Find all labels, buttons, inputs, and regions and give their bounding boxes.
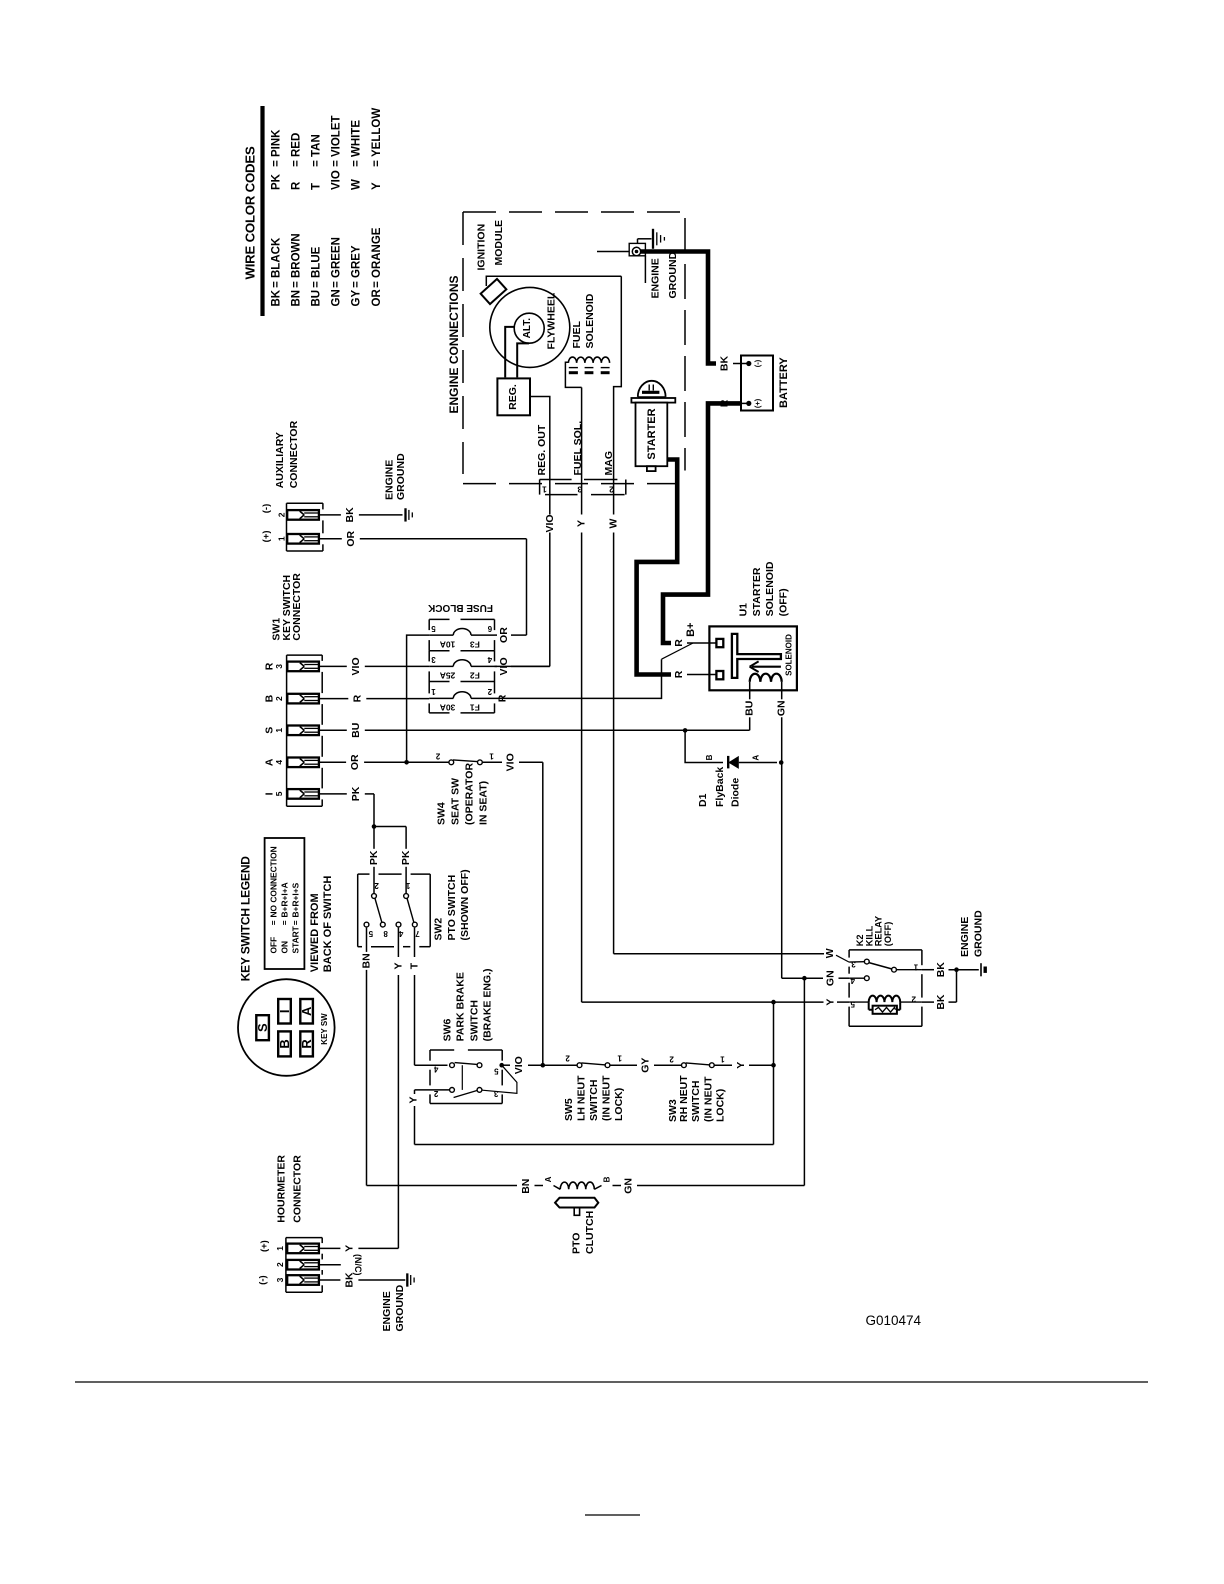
key switch face diagram [238, 979, 335, 1076]
svg-text:SOLENOID: SOLENOID [784, 634, 793, 676]
svg-text:BU: BU [311, 290, 323, 307]
svg-text:IGNITION: IGNITION [476, 224, 488, 271]
svg-text:BN: BN [361, 953, 373, 968]
svg-text:5: 5 [431, 624, 436, 633]
wire ALT to REG right [517, 343, 529, 377]
svg-text:S: S [255, 1023, 270, 1032]
svg-text:OFF: OFF [269, 937, 279, 954]
seat switch SW4 [435, 752, 494, 765]
label ENGINE GROUND (hourmeter) [381, 1284, 406, 1331]
svg-text:NO CONNECTION: NO CONNECTION [269, 846, 279, 917]
PTO clutch body [555, 1198, 598, 1216]
starter cable thick [637, 460, 678, 675]
wire BU key pin1 to solenoid coil [319, 723, 750, 738]
svg-text:ENGINE: ENGINE [959, 917, 971, 957]
svg-text:REG. OUT: REG. OUT [536, 424, 548, 475]
svg-text:BU: BU [744, 701, 756, 716]
svg-text:(BRAKE ENG.): (BRAKE ENG.) [482, 968, 494, 1041]
wire ALT to REG left [505, 327, 514, 378]
SW6 blade pole1 [455, 1063, 477, 1065]
svg-text:3: 3 [493, 1089, 498, 1098]
svg-text:=: = [271, 160, 283, 167]
svg-text:YELLOW: YELLOW [371, 108, 383, 157]
svg-text:START: START [290, 925, 300, 953]
engine ground bolt (top right) [597, 239, 652, 283]
wire OR fuse pin6 to auxiliary connector [495, 539, 527, 643]
svg-text:(+): (+) [753, 398, 762, 408]
svg-text:ON: ON [280, 941, 290, 954]
svg-text:GN: GN [776, 700, 788, 716]
wire color codes legend [243, 106, 384, 316]
wire Y to hourmeter pin1 [319, 1245, 399, 1252]
svg-text:5: 5 [850, 999, 855, 1008]
svg-text:PTO: PTO [571, 1233, 583, 1254]
svg-text:FUSE BLOCK: FUSE BLOCK [427, 602, 493, 613]
svg-text:2: 2 [911, 995, 916, 1004]
flywheel [490, 287, 570, 367]
svg-text:T: T [311, 183, 323, 190]
label SW1 KEY SWITCH CONNECTOR [271, 573, 303, 641]
svg-text:SOLENOID: SOLENOID [764, 561, 776, 616]
footer rule [75, 1381, 1148, 1383]
svg-text:R: R [496, 694, 508, 702]
svg-text:4: 4 [398, 929, 403, 938]
svg-text:R: R [299, 1039, 314, 1049]
wire FUEL SOL pin 3 [581, 387, 583, 475]
svg-text:GN: GN [331, 289, 343, 306]
engine connections dashed enclosure [447, 212, 685, 484]
svg-text:(N/C): (N/C) [353, 1254, 363, 1276]
SW6 pin5 contact [477, 1063, 499, 1076]
svg-text:WHITE: WHITE [351, 120, 363, 157]
svg-text:(+): (+) [261, 530, 272, 542]
fuse F2 25A [429, 655, 494, 681]
svg-text:1: 1 [274, 728, 284, 733]
svg-text:BN: BN [520, 1179, 532, 1194]
hourmeter pin2 [275, 1262, 285, 1267]
label ENGINE GROUND (auxiliary) [383, 453, 407, 500]
svg-text:FlyBack: FlyBack [714, 767, 726, 807]
svg-text:BK: BK [271, 289, 283, 306]
ground symbol (kill relay) [981, 963, 985, 976]
svg-text:1: 1 [720, 1055, 725, 1064]
wire Y from pin 3 down to kill relay [576, 475, 588, 1002]
SW2 pin4 contact [396, 922, 403, 938]
SW2 pin7 contact [412, 922, 419, 938]
svg-text:MAG: MAG [603, 451, 615, 476]
RH neutral switch SW3 [669, 1055, 725, 1068]
SW1 pin 3 terminal R [263, 662, 284, 670]
svg-text:Y: Y [825, 999, 837, 1006]
svg-text:BACK OF SWITCH: BACK OF SWITCH [322, 876, 334, 973]
svg-text:B+: B+ [685, 623, 697, 637]
wire VIO from pin 1 to fuse F2 [495, 475, 556, 666]
svg-text:2: 2 [435, 752, 440, 761]
svg-text:BLUE: BLUE [311, 246, 323, 278]
svg-text:30A: 30A [440, 703, 456, 713]
svg-text:VIO: VIO [513, 1056, 525, 1074]
key switch legend [238, 838, 334, 981]
wire N/C hourmeter pin2 [319, 1254, 363, 1276]
svg-text:F1: F1 [470, 703, 480, 713]
svg-text:GY: GY [640, 1058, 652, 1073]
svg-text:=: = [291, 160, 303, 167]
svg-text:Y: Y [735, 1062, 747, 1069]
SW2 pin8 contact [380, 922, 387, 938]
SW6 pin3 to pin5 jog [482, 1065, 517, 1093]
fuse F1 30A [429, 687, 494, 713]
svg-text:=: = [351, 160, 363, 167]
solenoid contact blade [662, 643, 693, 659]
wire Y SW3 to junction [715, 1062, 776, 1069]
diode D1 [705, 754, 784, 769]
svg-text:VIO: VIO [544, 514, 556, 532]
svg-text:PARK BRAKE: PARK BRAKE [454, 972, 466, 1041]
ground symbol (auxiliary) [406, 508, 413, 521]
svg-text:1: 1 [405, 881, 410, 890]
svg-text:10A: 10A [440, 639, 456, 649]
SW6 pin2 wire in [415, 1089, 450, 1091]
svg-text:7: 7 [415, 929, 420, 938]
svg-text:Diode: Diode [730, 778, 742, 807]
fuel solenoid [565, 293, 609, 387]
wire BK K2 pin1 to engine ground [922, 962, 979, 978]
label D1 FlyBack Diode [697, 767, 741, 807]
engine connector bracket [540, 480, 626, 495]
svg-text:GROUND: GROUND [395, 453, 407, 500]
svg-text:=: = [371, 160, 383, 167]
svg-text:SWITCH: SWITCH [468, 1000, 480, 1041]
kill relay K2 box [849, 950, 922, 1026]
svg-text:SOLENOID: SOLENOID [584, 293, 596, 348]
svg-text:=: = [331, 281, 343, 288]
svg-text:GREY: GREY [351, 245, 363, 278]
K2 pin3 contact [849, 959, 869, 968]
wire PK to SW2 pin1 [400, 827, 412, 894]
svg-text:VIO: VIO [505, 753, 517, 771]
svg-text:VIEWED FROM: VIEWED FROM [309, 893, 321, 972]
svg-text:(+): (+) [259, 1240, 270, 1252]
wire R to battery positive [719, 399, 749, 407]
auxiliary connector [287, 503, 323, 551]
K2 pin1 contact [892, 962, 922, 972]
K2 coil [849, 995, 922, 1014]
svg-text:VIO: VIO [331, 170, 343, 190]
svg-text:B: B [602, 1176, 611, 1182]
svg-text:BU: BU [350, 723, 362, 738]
label SW2 PTO SWITCH (SHOWN OFF) [432, 869, 471, 940]
svg-text:PK: PK [368, 850, 380, 865]
svg-text:VIOLET: VIOLET [331, 115, 343, 157]
svg-text:SW2: SW2 [432, 918, 444, 941]
SW1 pin 4 terminal A [263, 758, 284, 766]
wire GY SW5 to SW3 [610, 1058, 681, 1073]
svg-text:1: 1 [277, 536, 287, 541]
svg-text:25A: 25A [440, 671, 456, 681]
SW6 pin4 contact [433, 1063, 454, 1074]
wire Y SW6 pin2 branch [408, 1090, 774, 1145]
svg-text:2: 2 [275, 1262, 285, 1267]
wire BN SW2 pin5 down [361, 928, 373, 1186]
starter solenoid U1 box [709, 626, 797, 690]
svg-text:ENGINE: ENGINE [381, 1291, 393, 1331]
svg-text:A: A [299, 1006, 314, 1016]
svg-text:ENGINE: ENGINE [650, 258, 662, 298]
svg-text:1: 1 [617, 1054, 622, 1063]
svg-text:2: 2 [487, 687, 492, 696]
svg-text:R: R [291, 181, 303, 190]
svg-text:R: R [673, 639, 685, 647]
svg-text:=: = [280, 920, 290, 925]
svg-text:RELAY: RELAY [874, 916, 884, 946]
svg-text:A: A [752, 755, 761, 761]
svg-text:G010474: G010474 [866, 1313, 922, 1328]
svg-text:LH NEUT: LH NEUT [576, 1075, 588, 1121]
wire PK riser to SW2 [372, 794, 406, 829]
svg-text:RED: RED [291, 133, 303, 157]
wire GN to K2 pin4 [782, 970, 849, 986]
PTO clutch coil [554, 1182, 602, 1189]
svg-text:BK: BK [935, 962, 947, 978]
label AUXILIARY CONNECTOR [274, 420, 300, 488]
svg-text:ENGINE CONNECTIONS: ENGINE CONNECTIONS [447, 275, 461, 413]
svg-text:Y: Y [408, 1096, 420, 1103]
svg-text:PK: PK [271, 173, 283, 190]
wire OR riser key pin4 to fuse pin5 [407, 635, 430, 762]
svg-text:D1: D1 [697, 793, 709, 807]
svg-text:SWITCH: SWITCH [588, 1080, 600, 1121]
svg-text:1: 1 [431, 687, 436, 696]
svg-text:1: 1 [542, 484, 547, 494]
wire BK aux to engine ground [319, 507, 403, 523]
svg-text:A: A [544, 1176, 553, 1182]
svg-text:U1: U1 [738, 603, 750, 617]
svg-text:GN: GN [623, 1178, 635, 1194]
svg-text:=: = [271, 281, 283, 288]
battery cable negative BK [640, 252, 716, 364]
svg-text:SW4: SW4 [436, 802, 448, 825]
svg-text:HOURMETER: HOURMETER [276, 1155, 288, 1223]
svg-text:3: 3 [274, 664, 284, 669]
PTO switch SW2 box [358, 874, 431, 947]
label SW5 LH NEUT SWITCH (IN NEUT LOCK) [563, 1075, 625, 1121]
svg-text:BK: BK [935, 994, 947, 1010]
svg-text:2: 2 [565, 1054, 570, 1063]
svg-text:BK: BK [344, 507, 356, 523]
fuse block [429, 619, 494, 713]
wire PK key pin5 [319, 786, 374, 801]
svg-text:PTO SWITCH: PTO SWITCH [446, 875, 458, 941]
svg-text:MODULE: MODULE [493, 220, 505, 266]
svg-text:BK: BK [719, 356, 731, 372]
svg-text:B: B [277, 1039, 292, 1048]
svg-text:GN: GN [825, 970, 837, 986]
svg-text:ORANGE: ORANGE [371, 227, 383, 278]
starter [631, 381, 675, 471]
svg-text:BN: BN [291, 290, 303, 307]
svg-text:SWITCH: SWITCH [690, 1081, 702, 1122]
svg-text:R: R [351, 694, 363, 702]
wire VIO SW6 to SW5 [499, 1056, 576, 1074]
svg-text:(-): (-) [257, 1275, 268, 1285]
svg-text:(IN NEUT: (IN NEUT [601, 1075, 613, 1121]
label U1 STARTER SOLENOID (OFF) [738, 561, 790, 616]
figure number G010474 [866, 1313, 922, 1328]
svg-text:(OFF): (OFF) [883, 922, 893, 947]
svg-text:FUEL SOL.: FUEL SOL. [572, 421, 584, 476]
ignition module [476, 220, 507, 304]
svg-text:PINK: PINK [271, 129, 283, 157]
svg-text:=: = [351, 281, 363, 288]
svg-text:I: I [277, 1009, 292, 1013]
svg-text:OR: OR [349, 754, 361, 770]
svg-text:CONNECTOR: CONNECTOR [288, 420, 300, 488]
alternator ALT [514, 313, 544, 343]
svg-text:WIRE COLOR CODES: WIRE COLOR CODES [243, 146, 258, 279]
LH neutral switch SW5 [565, 1054, 622, 1068]
label SW3 RH NEUT SWITCH (IN NEUT LOCK) [667, 1075, 726, 1122]
svg-text:=: = [290, 920, 300, 925]
svg-text:LOCK): LOCK) [714, 1089, 726, 1122]
SW6 pin3 contact [477, 1088, 498, 1099]
svg-text:Y: Y [576, 520, 588, 527]
SW1 pin 1 terminal S [263, 727, 284, 734]
wire OR key pin4 to seat switch [319, 754, 449, 770]
svg-text:OR: OR [371, 289, 383, 307]
svg-text:3: 3 [275, 1277, 285, 1282]
svg-text:CONNECTOR: CONNECTOR [291, 573, 303, 641]
K2 pin4 contact [849, 976, 869, 985]
svg-text:(IN NEUT: (IN NEUT [702, 1076, 714, 1122]
svg-text:ALT.: ALT. [522, 318, 533, 339]
wire VIO fuse pin4 riser [495, 657, 550, 675]
svg-text:1: 1 [275, 1246, 285, 1251]
wire GN PTO clutch B to kill relay net [602, 978, 804, 1194]
wire W from pin 2 down to kill relay [608, 475, 620, 954]
svg-text:GY: GY [351, 290, 363, 307]
SW2 pin1 contact [404, 881, 411, 899]
label K2 KILL RELAY (OFF) [855, 916, 893, 946]
svg-text:B: B [705, 754, 714, 760]
battery [741, 356, 790, 411]
svg-text:PK: PK [350, 786, 362, 801]
wire R to solenoid B+ pin [673, 639, 717, 647]
wire R from fuse F1 to solenoid blade [495, 659, 662, 702]
label PTO CLUTCH [571, 1211, 597, 1254]
svg-text:6: 6 [487, 624, 492, 633]
svg-text:OR: OR [498, 627, 510, 643]
svg-text:AUXILIARY: AUXILIARY [274, 432, 286, 488]
svg-text:=: = [269, 920, 279, 925]
footer underline [585, 1514, 640, 1516]
pin 1 REG. OUT [536, 424, 548, 494]
label FUSE BLOCK [427, 602, 493, 613]
ground symbol (hourmeter) [407, 1273, 414, 1286]
svg-text:BROWN: BROWN [291, 233, 303, 278]
svg-text:BLACK: BLACK [271, 237, 283, 278]
svg-text:Y: Y [343, 1245, 355, 1252]
wire Y row to K2 pin5 [582, 999, 850, 1006]
wire Y junction riser [771, 1000, 776, 1145]
svg-text:R: R [673, 670, 685, 678]
svg-text:5: 5 [274, 791, 284, 796]
hourmeter connector [286, 1238, 322, 1293]
fuse F3 10A [429, 624, 494, 650]
label B+ [685, 623, 697, 637]
hourmeter pin3 (-) [257, 1275, 285, 1285]
svg-text:3: 3 [431, 655, 436, 664]
svg-text:Y: Y [371, 182, 383, 190]
label SW4 SEAT SW (OPERATOR IN SEAT) [436, 763, 490, 825]
svg-text:1: 1 [489, 752, 494, 761]
svg-text:=: = [331, 160, 343, 167]
wire W to K2 pin3 [614, 948, 850, 962]
svg-text:R: R [719, 399, 731, 407]
svg-text:VIO: VIO [498, 657, 510, 675]
wire BK to battery negative [719, 356, 749, 372]
wire BU solenoid coil to key switch [744, 682, 756, 730]
SW2 blade pin2-pin8 [375, 899, 382, 923]
svg-text:=: = [311, 281, 323, 288]
svg-text:REG.: REG. [507, 384, 519, 410]
svg-text:SEAT SW: SEAT SW [449, 778, 461, 825]
SW6 blade pole2 [454, 1091, 477, 1098]
wire T SW2 pin7 to park brake [409, 928, 448, 1066]
svg-text:BK: BK [343, 1272, 355, 1288]
svg-text:SW6: SW6 [442, 1018, 454, 1041]
wire BU branch to diode [683, 728, 723, 762]
wire PK to SW2 pin2 [368, 827, 380, 894]
svg-text:2: 2 [669, 1055, 674, 1064]
svg-text:GROUND: GROUND [394, 1284, 406, 1331]
wire R to solenoid lower pin [673, 670, 717, 678]
wire VIO key pin3 to fuse [319, 657, 429, 675]
svg-text:CONNECTOR: CONNECTOR [292, 1155, 304, 1223]
svg-text:TAN: TAN [311, 134, 323, 157]
SW6 mechanical link [461, 1065, 463, 1090]
K2 blade [869, 963, 892, 969]
svg-text:5: 5 [494, 1067, 499, 1076]
wire GN solenoid coil down [776, 682, 788, 978]
svg-text:(-): (-) [753, 359, 762, 367]
svg-text:KEY SWITCH LEGEND: KEY SWITCH LEGEND [238, 856, 252, 982]
svg-text:KEY SW: KEY SW [320, 1013, 329, 1045]
pin 2 MAG [603, 451, 615, 494]
SW1 pin 2 terminal B [263, 694, 284, 702]
key switch connector SW1 [287, 655, 323, 806]
svg-text:W: W [351, 179, 363, 190]
svg-text:2: 2 [374, 881, 379, 890]
svg-text:SW5: SW5 [563, 1098, 575, 1121]
svg-text:ENGINE: ENGINE [383, 460, 395, 500]
svg-text:GROUND: GROUND [972, 910, 984, 957]
wire OR aux pin1 [319, 531, 527, 547]
wire BK K2 pin2 [922, 970, 957, 1010]
wire REG. OUT [530, 397, 550, 476]
svg-text:B+R+I+A: B+R+I+A [280, 882, 290, 917]
svg-text:8: 8 [383, 929, 388, 938]
svg-text:STARTER: STARTER [646, 408, 658, 459]
svg-text:IN SEAT): IN SEAT) [478, 781, 490, 825]
SW2 pin5 contact [364, 922, 373, 938]
svg-text:Y: Y [392, 962, 404, 969]
svg-text:2: 2 [274, 696, 284, 701]
battery cable positive R [663, 403, 741, 643]
svg-text:T: T [409, 962, 421, 969]
label SW6 PARK BRAKE SWITCH (BRAKE ENG.) [442, 968, 494, 1041]
svg-text:5: 5 [368, 929, 373, 938]
wire BN to PTO clutch A [367, 1176, 554, 1193]
